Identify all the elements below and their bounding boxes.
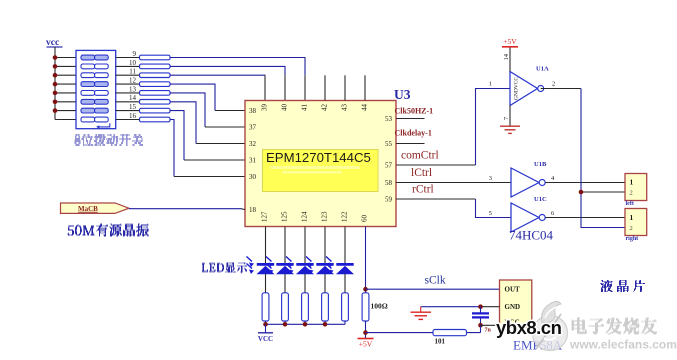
svg-text:18: 18 [249, 206, 257, 214]
svg-text:7n: 7n [485, 328, 492, 334]
svg-text:U1C: U1C [534, 196, 547, 203]
svg-text:10: 10 [129, 59, 137, 67]
svg-text:43: 43 [341, 104, 349, 112]
svg-text:5: 5 [489, 210, 492, 217]
svg-text:U3: U3 [394, 87, 411, 102]
svg-text:59: 59 [385, 195, 393, 203]
svg-text:GNDVCC: GNDVCC [513, 77, 519, 101]
svg-text:101: 101 [435, 338, 446, 346]
svg-text:39: 39 [261, 104, 269, 112]
svg-text:127: 127 [261, 211, 269, 222]
svg-text:41: 41 [301, 104, 309, 112]
svg-text:32: 32 [249, 140, 257, 148]
svg-text:124: 124 [301, 211, 309, 222]
svg-text:74HC04: 74HC04 [509, 228, 554, 243]
svg-text:MaCB: MaCB [78, 205, 98, 213]
svg-text:60: 60 [361, 215, 369, 223]
svg-text:GND: GND [505, 303, 521, 311]
svg-text:1: 1 [630, 213, 634, 222]
svg-text:www.elecfans.com: www.elecfans.com [569, 338, 677, 352]
svg-text:44: 44 [361, 104, 369, 112]
svg-text:40: 40 [281, 104, 289, 112]
svg-text:lCtrl: lCtrl [411, 167, 432, 179]
svg-text:11: 11 [129, 68, 136, 76]
svg-text:Clkdelay-1: Clkdelay-1 [395, 129, 432, 138]
svg-text:58: 58 [385, 179, 393, 187]
svg-text:37: 37 [249, 123, 257, 131]
svg-text:122: 122 [341, 211, 349, 222]
svg-text:2: 2 [630, 225, 633, 232]
svg-text:2: 2 [552, 81, 555, 88]
svg-text:left: left [626, 201, 634, 207]
svg-text:38: 38 [249, 107, 257, 115]
svg-text:12: 12 [129, 77, 137, 85]
svg-text:2: 2 [630, 190, 633, 197]
svg-text:ybx8.cn: ybx8.cn [496, 317, 562, 338]
svg-text:U1B: U1B [534, 161, 547, 168]
svg-text:sClk: sClk [425, 275, 446, 287]
svg-text:31: 31 [249, 156, 257, 164]
svg-text:rCtrl: rCtrl [412, 184, 434, 196]
svg-text:57: 57 [385, 161, 393, 169]
svg-text:1: 1 [630, 178, 634, 187]
svg-text:OUT: OUT [505, 286, 521, 294]
svg-text:125: 125 [281, 211, 289, 222]
svg-text:15: 15 [129, 103, 137, 111]
svg-text:16: 16 [129, 112, 137, 120]
svg-text:9: 9 [133, 50, 137, 58]
svg-text:U1A: U1A [536, 66, 549, 73]
svg-text:VCC: VCC [258, 335, 273, 343]
svg-text:Clk50HZ-1: Clk50HZ-1 [395, 107, 434, 116]
svg-text:14: 14 [129, 94, 137, 102]
svg-text:+5V: +5V [359, 340, 373, 349]
svg-text:1: 1 [489, 81, 492, 88]
svg-text:right: right [626, 236, 639, 242]
svg-text:55: 55 [385, 140, 393, 148]
svg-text:42: 42 [321, 104, 329, 112]
svg-text:123: 123 [321, 211, 329, 222]
svg-text:53: 53 [385, 115, 393, 123]
svg-text:comCtrl: comCtrl [401, 150, 439, 162]
svg-text:+5V: +5V [503, 37, 517, 46]
svg-text:13: 13 [129, 85, 137, 93]
svg-text:EPM1270T144C5: EPM1270T144C5 [266, 150, 371, 165]
svg-text:3: 3 [489, 175, 492, 182]
svg-text:14: 14 [503, 53, 510, 60]
svg-text:30: 30 [249, 173, 257, 181]
svg-text:100Ω: 100Ω [371, 302, 388, 311]
